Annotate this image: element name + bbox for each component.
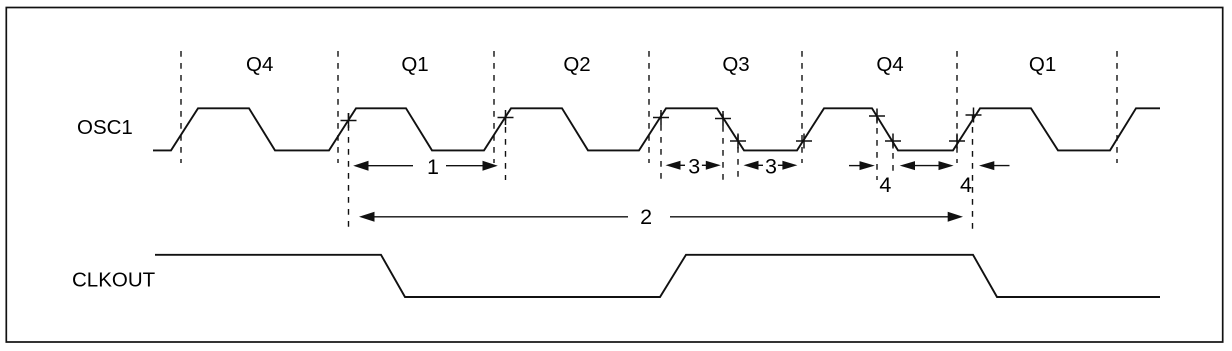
cross mark on rising edge at t3 low right (804,141) [796,134,812,149]
measurement dashed line at x=348.5 (t1 left / t2 left) [348,113,350,230]
svg-text:1: 1 [427,155,439,179]
measurement dashed line at x=877 (t4 fall left) [876,116,878,180]
svg-text:Q3: Q3 [722,53,749,76]
dimension arrow 3 (high time) right head [702,161,721,170]
cross mark on falling edge bottom at t4 fall (893,141) [885,134,901,149]
svg-text:CLKOUT: CLKOUT [72,269,156,292]
measurement dashed line at x=723 (t3 high right) [722,114,724,180]
quadrant boundary dashed line 5 (x=802) [801,51,803,163]
OSC1 waveform [153,108,1160,150]
measurement dashed line at x=661 (t3 high left) [660,113,662,182]
quadrant boundary dashed line 7 (x=1117) [1116,51,1118,163]
svg-text:Q2: Q2 [563,53,590,76]
measurement dashed line at x=893 (t4 fall right) [892,141,894,176]
cross mark on rising edge top at t4 rise (974,115) [966,108,982,123]
dimension arrow 4 fall, right-pointing single arrow [849,161,875,170]
svg-text:Q1: Q1 [1029,53,1056,76]
cross mark on rising edge at t1 left (348.5,120.5) [341,113,357,128]
svg-text:Q4: Q4 [246,53,273,76]
dimension arrow 2 right head [670,212,963,222]
cross mark on rising edge bottom at t4 rise (957,141) [949,134,965,149]
cross mark on falling edge at t3 low left (738,141) [730,134,746,149]
svg-text:3: 3 [688,155,700,179]
dimension arrow 3 (low time) left head [744,161,764,170]
dimension arrow 1 right head [446,161,498,171]
dimension arrow 3 (low time) right head [778,161,798,170]
svg-text:Q4: Q4 [876,53,903,76]
svg-text:4: 4 [960,173,972,197]
dimension arrow between t4 marks, double-headed [900,161,954,170]
quadrant boundary dashed line 2 (x=338) [337,51,339,163]
measurement dashed line at x=505.5 (t1 right) [505,115,507,180]
dimension arrow 2 left head [359,212,628,222]
quadrant boundary dashed line 4 (x=649) [648,51,650,163]
quadrant boundary dashed line 1 (x=181) [180,51,182,163]
svg-text:Q1: Q1 [401,53,428,76]
svg-text:OSC1: OSC1 [77,116,133,139]
dimension arrow 4 rise, left-pointing single arrow [979,161,1010,170]
dimension arrow 1 left head [353,161,413,171]
quadrant boundary dashed line 6 (x=957) [956,51,958,163]
measurement dashed line at x=974 (t4 rise right / t2 right) [972,115,974,232]
svg-text:3: 3 [765,155,777,179]
svg-text:4: 4 [879,173,891,197]
svg-text:2: 2 [640,205,652,229]
cross mark on falling edge at t3 high right (723,118.5) [715,111,731,126]
cross mark on rising edge at t1 right (505.5,117.5) [498,110,514,125]
measurement dashed line at x=738 (t3 low left) [737,135,739,182]
cross mark on falling edge top at t4 fall (877,116) [869,109,885,124]
cross mark on rising edge at t3 high left (661,117.5) [653,110,669,125]
CLKOUT waveform [155,255,1160,297]
quadrant boundary dashed line 3 (x=494) [493,51,495,163]
dimension arrow 3 (high time) left head [666,161,686,170]
